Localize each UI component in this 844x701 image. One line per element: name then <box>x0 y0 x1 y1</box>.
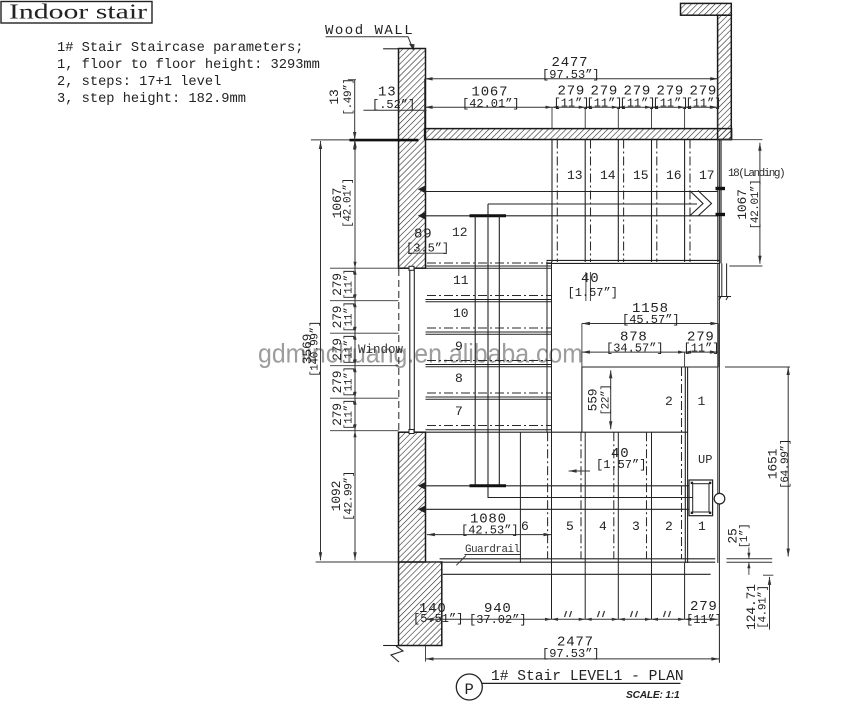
svg-text:1651: 1651 <box>766 448 781 479</box>
svg-text:Window: Window <box>358 343 404 357</box>
mid dim 878 + 279 <box>582 330 720 368</box>
right boundary double <box>717 263 719 563</box>
svg-text:5: 5 <box>566 519 574 534</box>
bottom texts <box>413 599 722 661</box>
svg-text:UP: UP <box>698 453 712 467</box>
svg-text:[.52”]: [.52”] <box>372 98 415 112</box>
svg-text:[1.57”]: [1.57”] <box>596 458 646 472</box>
svg-text:[11”]: [11”] <box>344 334 356 365</box>
svg-text:559: 559 <box>586 389 601 412</box>
wall bottom break <box>383 646 403 663</box>
left rotated 279 x5 <box>330 269 356 430</box>
step numbers top flight <box>567 168 715 183</box>
floor edge thick line <box>311 139 350 141</box>
thick ticks at wall end of arrow <box>716 187 726 190</box>
guardrail label <box>456 544 521 565</box>
svg-text:[5.51”]: [5.51”] <box>413 612 463 626</box>
left flight dash-dot lines <box>427 263 552 426</box>
bottom-left extension line <box>316 561 440 563</box>
svg-text:[11”]: [11”] <box>686 97 722 111</box>
bottom chain dim line <box>426 618 718 621</box>
svg-text:[11”]: [11”] <box>344 366 356 397</box>
mid dim 559 <box>586 370 613 429</box>
svg-text:2: 2 <box>665 519 673 534</box>
lower arrow lines <box>426 486 693 510</box>
svg-text:13: 13 <box>567 168 583 183</box>
svg-text:[1”]: [1”] <box>739 524 751 549</box>
left flight solid step pairs <box>426 266 552 430</box>
svg-text:4: 4 <box>599 519 607 534</box>
ditto marks <box>565 611 671 617</box>
svg-text:16: 16 <box>666 168 682 183</box>
svg-text:7: 7 <box>455 404 463 419</box>
guardrail bottom <box>440 559 716 575</box>
svg-text:1: 1 <box>698 394 706 409</box>
svg-text:[42.01”]: [42.01”] <box>343 178 355 228</box>
upper arrow lines <box>426 191 718 217</box>
svg-text:8: 8 <box>455 371 463 386</box>
right dim 25 <box>726 524 773 575</box>
svg-text:2, steps: 17+1 level: 2, steps: 17+1 level <box>57 75 221 90</box>
lower flight step numbers <box>521 519 706 534</box>
wall top horizontal <box>425 129 732 140</box>
svg-text:15: 15 <box>633 168 649 183</box>
top dim extension verticals <box>425 79 718 129</box>
svg-text:[11”]: [11”] <box>344 301 356 332</box>
wall top edge extension <box>383 48 399 50</box>
svg-text:[97.53”]: [97.53”] <box>542 647 600 661</box>
svg-text:[11”]: [11”] <box>344 269 356 300</box>
svg-text:[34.57”]: [34.57”] <box>606 342 664 356</box>
top flight verticals steps 13-17 <box>552 140 718 263</box>
svg-text:[42.99”]: [42.99”] <box>344 471 356 521</box>
svg-text:1, floor to floor height: 3293: 1, floor to floor height: 3293mm <box>57 58 320 73</box>
newel post <box>689 480 725 516</box>
window <box>358 266 414 433</box>
right dim 1651 <box>725 367 792 557</box>
title box <box>1 0 152 24</box>
top dim 2477 <box>425 55 719 82</box>
svg-text:[11”]: [11”] <box>653 97 689 111</box>
svg-text:[97.53”]: [97.53”] <box>542 68 600 82</box>
svg-text:[11”]: [11”] <box>684 342 720 356</box>
svg-text:3, step height: 182.9mm: 3, step height: 182.9mm <box>57 92 246 107</box>
svg-text:14: 14 <box>600 168 616 183</box>
path verticals <box>475 204 499 498</box>
svg-text:40: 40 <box>581 271 599 287</box>
lower flight verticals <box>520 432 684 619</box>
svg-text:Indoor stair: Indoor stair <box>9 0 147 24</box>
wall right vertical <box>718 15 732 139</box>
svg-text:[42.01”]: [42.01”] <box>750 180 762 230</box>
title bottom <box>456 669 683 701</box>
svg-text:1# Stair Staircase parameters;: 1# Stair Staircase parameters; <box>57 41 303 56</box>
svg-text:18(Landing): 18(Landing) <box>728 168 784 180</box>
svg-text:1: 1 <box>698 519 706 534</box>
svg-text:1# Stair LEVEL1 - PLAN: 1# Stair LEVEL1 - PLAN <box>491 669 684 685</box>
wall left lower wide <box>399 562 442 646</box>
mid dim 40 lower <box>569 446 647 473</box>
right dim 124.71 <box>744 575 773 630</box>
svg-text:P: P <box>465 681 474 699</box>
dim 1080 <box>427 512 552 538</box>
svg-text:1092: 1092 <box>329 481 344 511</box>
long middle horizontal (landing bottom) <box>426 431 688 433</box>
svg-text:3: 3 <box>632 519 640 534</box>
svg-text:[37.02”]: [37.02”] <box>469 613 527 627</box>
svg-text:SCALE: 1:1: SCALE: 1:1 <box>626 690 680 701</box>
svg-text:[42.53”]: [42.53”] <box>461 524 519 538</box>
svg-text:17: 17 <box>699 168 715 183</box>
left flight step numbers <box>453 273 469 419</box>
wall left upper <box>399 49 426 269</box>
svg-text:13: 13 <box>327 89 342 104</box>
left dim 13 [.49] <box>327 78 356 150</box>
svg-text:[11”]: [11”] <box>587 97 623 111</box>
right dim 1067 (landing) <box>720 140 762 266</box>
wall left mid <box>399 432 426 562</box>
svg-text:[11”]: [11”] <box>686 613 722 627</box>
parameter text block <box>57 41 320 107</box>
top dim 1067 + 279 chain line <box>425 84 722 112</box>
top dim 13 <box>363 85 426 113</box>
svg-text:[1.57”]: [1.57”] <box>568 286 618 300</box>
svg-text:6: 6 <box>521 519 529 534</box>
svg-text:[11”]: [11”] <box>620 97 656 111</box>
svg-text:[22”]: [22”] <box>601 384 613 415</box>
left flight right double verticals <box>546 262 548 433</box>
dim 89 <box>406 227 449 256</box>
wood wall label + leader <box>325 23 415 51</box>
svg-text:[140.99”]: [140.99”] <box>310 321 322 377</box>
svg-text:1067: 1067 <box>735 189 750 219</box>
svg-text:[.49”]: [.49”] <box>343 78 355 115</box>
left chain tick extension lines <box>330 268 399 431</box>
svg-text:[42.01”]: [42.01”] <box>462 97 520 111</box>
bottom 2477 dim <box>426 646 720 662</box>
left chain dim line <box>353 140 356 561</box>
svg-text:[64.99”]: [64.99”] <box>780 439 792 489</box>
top flight bottom double line <box>547 259 721 261</box>
svg-text:[4.91”]: [4.91”] <box>758 585 770 628</box>
svg-text:10: 10 <box>453 306 469 321</box>
svg-text:[45.57”]: [45.57”] <box>622 313 680 327</box>
svg-text:9: 9 <box>455 339 463 354</box>
walls <box>399 3 732 645</box>
svg-text:2: 2 <box>665 394 673 409</box>
landing right edge <box>720 140 722 264</box>
landing box <box>582 367 719 563</box>
wall triangles upper <box>418 185 426 193</box>
svg-text:[11”]: [11”] <box>344 399 356 430</box>
guardrail drop right of landing <box>719 263 732 300</box>
svg-text:89: 89 <box>414 227 432 243</box>
svg-text:12: 12 <box>452 225 468 240</box>
left dim 3569 <box>300 141 322 560</box>
svg-text:11: 11 <box>453 273 469 288</box>
mid dim 1158 <box>582 301 719 367</box>
mid dim 40 upper <box>568 271 618 301</box>
svg-text:[11”]: [11”] <box>554 97 590 111</box>
wall top bracket <box>681 3 732 15</box>
start tick upper <box>470 214 507 217</box>
